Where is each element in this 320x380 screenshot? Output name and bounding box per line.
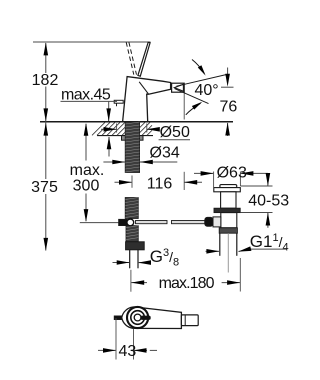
svg-text:Ø63: Ø63: [217, 165, 247, 182]
svg-text:300: 300: [73, 178, 100, 195]
svg-text:76: 76: [220, 99, 238, 116]
svg-text:43: 43: [119, 343, 137, 360]
svg-text:Ø34: Ø34: [150, 145, 180, 162]
svg-text:max.: max.: [70, 162, 105, 179]
svg-text:G11/4: G11/4: [250, 232, 289, 254]
svg-text:182: 182: [32, 72, 59, 89]
svg-text:max.180: max.180: [159, 275, 215, 292]
svg-text:G3/8: G3/8: [150, 247, 179, 269]
svg-text:375: 375: [31, 179, 58, 196]
svg-text:40°: 40°: [195, 82, 219, 99]
svg-text:Ø50: Ø50: [160, 124, 190, 141]
svg-text:40-53: 40-53: [248, 192, 289, 209]
svg-text:116: 116: [147, 175, 173, 192]
